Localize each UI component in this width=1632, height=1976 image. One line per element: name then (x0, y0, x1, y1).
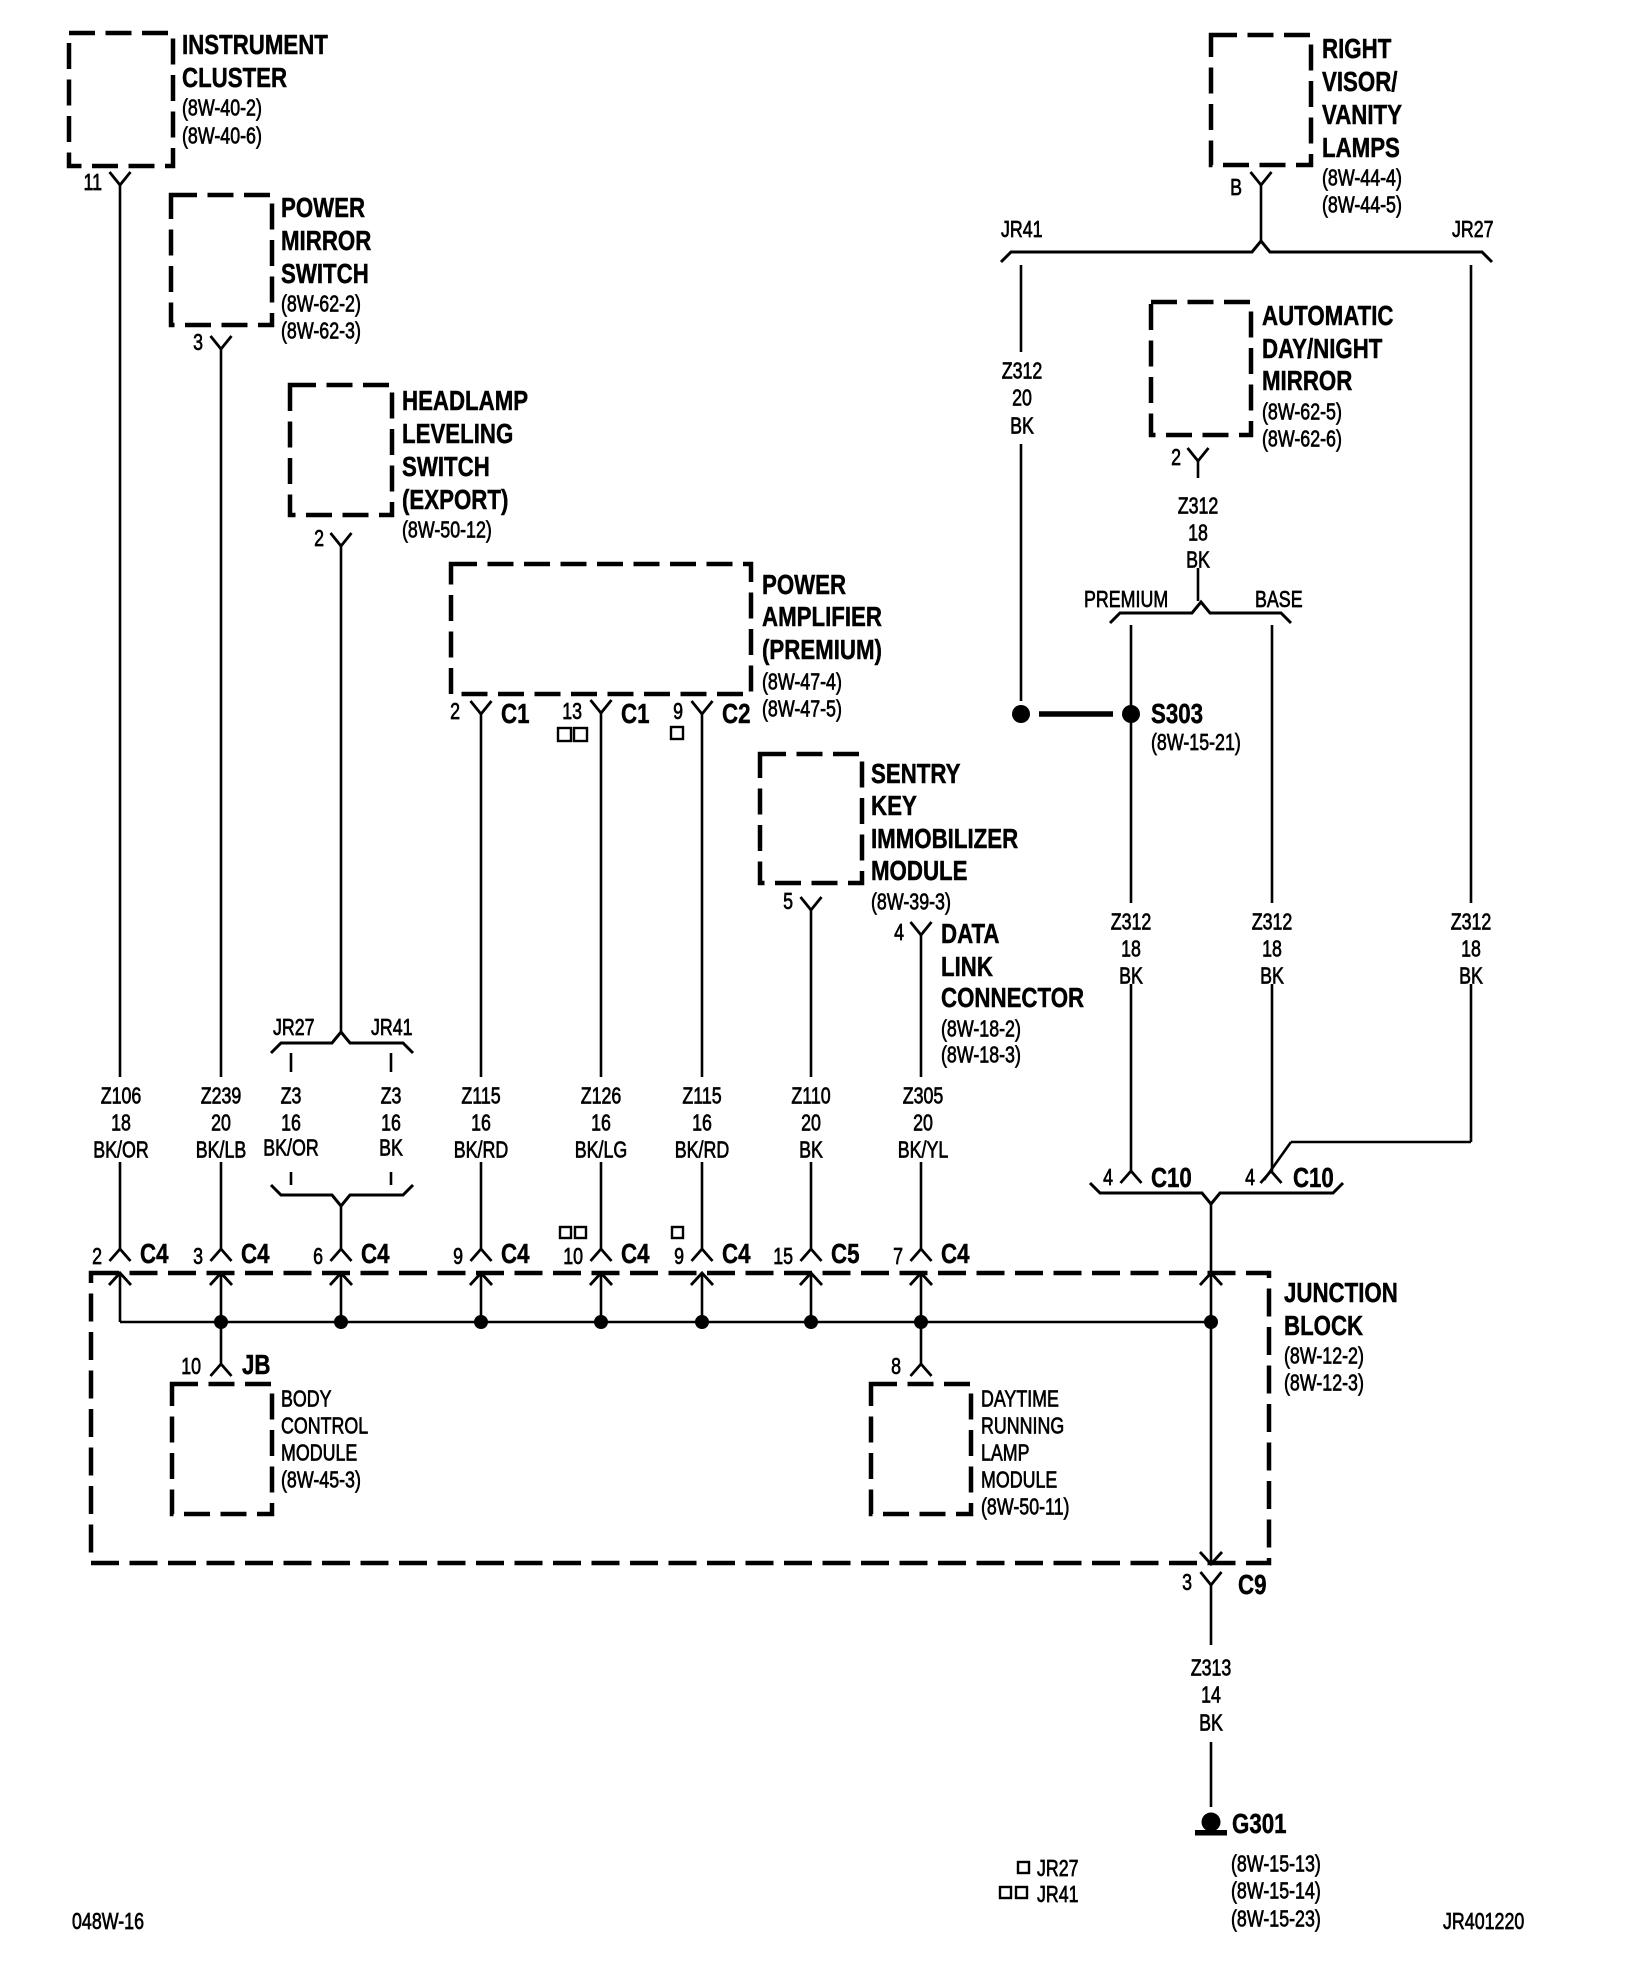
svg-text:MODULE: MODULE (981, 1467, 1057, 1493)
bus junction node at x=221 (214, 1315, 228, 1329)
connector C9 pin 3 (1182, 1569, 1266, 1600)
svg-text:2: 2 (92, 1243, 102, 1269)
svg-text:BK: BK (799, 1137, 823, 1163)
svg-text:BK: BK (1260, 963, 1284, 989)
svg-text:AUTOMATIC: AUTOMATIC (1262, 300, 1394, 331)
svg-text:INSTRUMENT: INSTRUMENT (182, 29, 328, 60)
svg-text:3: 3 (1182, 1569, 1192, 1595)
JR41 marker squares above pin 10 (560, 1227, 586, 1238)
svg-text:Z115: Z115 (461, 1083, 500, 1109)
body control module box (172, 1384, 368, 1514)
svg-text:(8W-50-11): (8W-50-11) (981, 1494, 1070, 1520)
wire label Z126 16 BK/LG (575, 1083, 628, 1163)
wire Z110 from sentry key module to junction block C5 pin 15 (810, 910, 813, 1249)
svg-text:(8W-44-4): (8W-44-4) (1322, 165, 1402, 191)
wire label Z3 16 BK (379, 1083, 403, 1161)
wire Z3 JR41 branch (390, 1053, 393, 1185)
svg-text:BK: BK (1199, 1710, 1223, 1736)
svg-text:Z312: Z312 (1002, 358, 1043, 384)
bus junction node at x=601 (594, 1315, 608, 1329)
svg-text:(8W-62-5): (8W-62-5) (1262, 399, 1342, 425)
JR41 marker squares below pin 13 (558, 728, 587, 741)
svg-text:MODULE: MODULE (281, 1440, 357, 1466)
svg-text:4: 4 (1245, 1164, 1255, 1190)
JR41/JR27 splitter bracket (1001, 216, 1494, 262)
automatic day/night mirror box (1151, 300, 1394, 451)
junction block top connector for C10 wire (1200, 1273, 1222, 1322)
svg-text:LINK: LINK (941, 951, 993, 982)
svg-text:C5: C5 (831, 1238, 860, 1269)
wire Z312 from mirror to premium/base bracket (1197, 461, 1200, 601)
svg-text:S303: S303 (1151, 698, 1203, 729)
svg-text:VANITY: VANITY (1322, 99, 1402, 130)
svg-text:2: 2 (1171, 444, 1181, 470)
svg-text:BK/LB: BK/LB (196, 1137, 247, 1163)
svg-text:(8W-40-2): (8W-40-2) (182, 95, 262, 121)
wire Z312 premium branch (1130, 625, 1133, 1171)
svg-text:18: 18 (1262, 936, 1282, 962)
svg-text:JR401220: JR401220 (1443, 1908, 1524, 1934)
svg-text:JR41: JR41 (371, 1014, 413, 1040)
svg-text:(8W-12-2): (8W-12-2) (1284, 1343, 1364, 1369)
wire Z106 from instrument cluster pin 11 to junction block C4 pin 2 (119, 185, 122, 1249)
svg-text:IMMOBILIZER: IMMOBILIZER (871, 823, 1018, 854)
wire Z3 from headlamp leveling switch to splice bracket (340, 546, 343, 1032)
svg-text:CONNECTOR: CONNECTOR (941, 982, 1084, 1013)
svg-text:20: 20 (211, 1110, 231, 1136)
svg-text:C4: C4 (361, 1238, 390, 1269)
svg-text:C10: C10 (1293, 1162, 1334, 1193)
svg-text:JR27: JR27 (1037, 1855, 1079, 1881)
svg-text:C4: C4 (621, 1238, 650, 1269)
svg-text:SENTRY: SENTRY (871, 758, 961, 789)
svg-text:BLOCK: BLOCK (1284, 1310, 1363, 1341)
JR27 marker square above pin 9 (672, 1227, 683, 1238)
pin 3 connector at power mirror switch (193, 329, 231, 355)
svg-text:20: 20 (801, 1110, 821, 1136)
svg-text:AMPLIFIER: AMPLIFIER (762, 601, 882, 632)
svg-text:Z313: Z313 (1191, 1655, 1232, 1681)
svg-text:MODULE: MODULE (871, 855, 968, 886)
svg-text:(8W-18-3): (8W-18-3) (941, 1042, 1021, 1068)
wire from C10 bracket into junction block (1210, 1204, 1213, 1272)
svg-text:3: 3 (193, 1243, 203, 1269)
svg-text:JR27: JR27 (1452, 216, 1494, 242)
svg-text:6: 6 (313, 1243, 323, 1269)
svg-text:16: 16 (381, 1110, 401, 1136)
junction block connector C4 pin 2 (92, 1238, 169, 1322)
svg-text:CLUSTER: CLUSTER (182, 62, 287, 93)
svg-text:BK/OR: BK/OR (263, 1135, 319, 1161)
svg-text:LAMPS: LAMPS (1322, 132, 1400, 163)
svg-text:20: 20 (1012, 385, 1032, 411)
bus junction node at x=702 (695, 1315, 709, 1329)
connector C10 pin 4 (premium) (1103, 1162, 1192, 1193)
svg-text:Z3: Z3 (281, 1083, 302, 1109)
svg-text:C10: C10 (1151, 1162, 1192, 1193)
svg-text:9: 9 (453, 1243, 463, 1269)
pin 2 connector C1 at power amplifier (450, 698, 529, 729)
svg-text:4: 4 (1103, 1164, 1113, 1190)
pin 9 connector C2 at power amplifier (673, 698, 750, 729)
svg-text:POWER: POWER (762, 569, 846, 600)
svg-text:DAY/NIGHT: DAY/NIGHT (1262, 333, 1382, 364)
wire label Z312 18 BK (premium) (1111, 909, 1152, 989)
PREMIUM/BASE splitter bracket (1084, 586, 1303, 623)
wire label Z312 18 BK (base) (1252, 909, 1293, 989)
junction block connector pin 8 to daytime running lamp module (891, 1322, 931, 1379)
svg-text:(8W-12-3): (8W-12-3) (1284, 1370, 1364, 1396)
svg-text:(8W-47-5): (8W-47-5) (762, 696, 842, 722)
connector symbol: instrument cluster module box (69, 29, 328, 166)
wire Z115 from power amplifier C1 pin 2 (480, 714, 483, 1249)
pin 4 connector at data link connector (894, 918, 1084, 1067)
svg-text:CONTROL: CONTROL (281, 1413, 368, 1439)
svg-text:10: 10 (563, 1243, 583, 1269)
svg-text:B: B (1230, 174, 1242, 200)
svg-text:18: 18 (1188, 520, 1208, 546)
headlamp leveling switch box (290, 385, 528, 543)
svg-text:C2: C2 (722, 698, 751, 729)
bus junction node at x=1211 (1204, 1315, 1218, 1329)
svg-text:Z106: Z106 (101, 1083, 142, 1109)
svg-text:5: 5 (783, 888, 793, 914)
svg-text:(8W-62-3): (8W-62-3) (281, 318, 361, 344)
svg-text:Z126: Z126 (581, 1083, 622, 1109)
svg-text:DATA: DATA (941, 918, 1000, 949)
svg-text:13: 13 (562, 698, 582, 724)
wire label Z313 14 BK (1191, 1655, 1232, 1736)
wire label Z305 20 BK/YL (898, 1083, 949, 1163)
svg-text:9: 9 (674, 1243, 684, 1269)
wire label Z312 20 BK (1002, 358, 1043, 439)
sheet id JR401220 (1443, 1908, 1524, 1934)
svg-text:BK: BK (1119, 963, 1143, 989)
wire label Z115 16 BK/RD (right) (675, 1083, 730, 1163)
svg-text:16: 16 (591, 1110, 611, 1136)
svg-text:11: 11 (84, 169, 103, 195)
wire label Z3 16 BK/OR (263, 1083, 319, 1161)
junction block connector C5 pin 15 (773, 1238, 859, 1322)
svg-text:(8W-50-12): (8W-50-12) (402, 517, 492, 543)
svg-text:15: 15 (773, 1243, 793, 1269)
svg-text:MIRROR: MIRROR (1262, 365, 1352, 396)
right visor vanity lamps box (1211, 33, 1402, 217)
svg-text:PREMIUM: PREMIUM (1084, 586, 1168, 612)
svg-text:Z312: Z312 (1451, 909, 1492, 935)
junction block connector C4 pin 9 (453, 1238, 530, 1322)
svg-text:048W-16: 048W-16 (72, 1908, 144, 1934)
pin 13 connector C1 at power amplifier (562, 698, 649, 729)
junction block box (91, 1273, 1398, 1563)
bus junction node at x=811 (804, 1315, 818, 1329)
svg-text:18: 18 (1461, 936, 1481, 962)
svg-text:(8W-40-6): (8W-40-6) (182, 123, 262, 149)
C10 merge bracket (1090, 1183, 1343, 1204)
daytime running lamp module box (871, 1384, 1070, 1520)
svg-text:Z3: Z3 (381, 1083, 402, 1109)
svg-text:JB: JB (242, 1349, 271, 1380)
svg-text:(8W-18-2): (8W-18-2) (941, 1016, 1021, 1042)
wire Z305 from data link connector to junction block C4 pin 7 (920, 935, 923, 1249)
svg-text:VISOR/: VISOR/ (1322, 66, 1398, 97)
wire label Z106 18 BK/OR (93, 1083, 149, 1163)
wire Z126 from power amplifier C1 pin 13 (600, 713, 603, 1249)
wire label Z110 20 BK (791, 1083, 830, 1163)
svg-text:C4: C4 (140, 1238, 169, 1269)
svg-text:Z305: Z305 (903, 1083, 944, 1109)
svg-text:LAMP: LAMP (981, 1440, 1030, 1466)
svg-text:HEADLAMP: HEADLAMP (402, 385, 528, 416)
svg-text:7: 7 (893, 1243, 903, 1269)
legend JR27 marker (1018, 1855, 1079, 1881)
svg-text:C4: C4 (722, 1238, 751, 1269)
svg-text:16: 16 (471, 1110, 491, 1136)
svg-text:MIRROR: MIRROR (281, 225, 371, 256)
svg-text:JR27: JR27 (273, 1014, 315, 1040)
svg-text:BK/YL: BK/YL (898, 1137, 949, 1163)
svg-text:(8W-44-5): (8W-44-5) (1322, 192, 1402, 218)
svg-text:BK/RD: BK/RD (454, 1137, 509, 1163)
legend JR41 marker (1000, 1881, 1079, 1907)
svg-text:(8W-62-2): (8W-62-2) (281, 291, 361, 317)
sentry key immobilizer module box (760, 754, 1018, 915)
svg-text:(8W-62-6): (8W-62-6) (1262, 426, 1342, 452)
svg-text:BK: BK (1010, 413, 1034, 439)
wire label Z312 18 BK (JR27) (1451, 909, 1492, 989)
svg-text:POWER: POWER (281, 192, 365, 223)
svg-text:(8W-39-3): (8W-39-3) (871, 889, 951, 915)
wire from visor lamps to JR41/JR27 splitter (1260, 185, 1263, 242)
svg-text:Z312: Z312 (1111, 909, 1152, 935)
junction block connector C4 pin 7 (893, 1238, 970, 1322)
svg-text:Z115: Z115 (682, 1083, 721, 1109)
svg-text:Z239: Z239 (201, 1083, 242, 1109)
svg-text:SWITCH: SWITCH (281, 258, 369, 289)
svg-text:4: 4 (894, 919, 904, 945)
wire label Z312 18 BK (mirror) (1178, 493, 1219, 573)
ground G301 symbol (1195, 1808, 1321, 1932)
svg-text:C4: C4 (501, 1238, 530, 1269)
JR27/JR41 merge bracket (bottom) (271, 1185, 413, 1206)
bus junction node at x=481 (474, 1315, 488, 1329)
wire Z239 from power mirror switch to junction block C4 pin 3 (220, 349, 223, 1249)
svg-text:(8W-15-14): (8W-15-14) (1231, 1878, 1321, 1904)
svg-text:BODY: BODY (281, 1386, 332, 1412)
JR27 marker square below pin 9 (671, 727, 683, 739)
junction block connector C4 pin 6 (313, 1238, 390, 1322)
svg-text:JR41: JR41 (1001, 216, 1043, 242)
svg-text:RUNNING: RUNNING (981, 1413, 1064, 1439)
svg-text:SWITCH: SWITCH (402, 451, 490, 482)
svg-text:2: 2 (450, 698, 460, 724)
junction block connector C4 pin 10 (563, 1238, 650, 1322)
svg-text:C1: C1 (501, 698, 530, 729)
svg-text:(EXPORT): (EXPORT) (402, 484, 508, 515)
svg-text:G301: G301 (1232, 1808, 1287, 1839)
svg-text:DAYTIME: DAYTIME (981, 1386, 1059, 1412)
svg-text:(8W-15-13): (8W-15-13) (1231, 1851, 1321, 1877)
pin B connector at right visor lamps (1230, 172, 1271, 200)
svg-text:(8W-15-23): (8W-15-23) (1231, 1906, 1321, 1932)
svg-text:BK: BK (1186, 547, 1210, 573)
wire label Z115 16 BK/RD (left) (454, 1083, 509, 1163)
svg-text:14: 14 (1201, 1682, 1221, 1708)
svg-text:(8W-45-3): (8W-45-3) (281, 1467, 361, 1493)
svg-text:20: 20 (913, 1110, 933, 1136)
splice S303 (1012, 698, 1241, 755)
svg-text:C4: C4 (941, 1238, 970, 1269)
wire Z312 JR27 branch (1264, 265, 1471, 1180)
svg-text:RIGHT: RIGHT (1322, 33, 1391, 64)
svg-text:BK: BK (1459, 963, 1483, 989)
svg-text:2: 2 (314, 525, 324, 551)
svg-text:(8W-47-4): (8W-47-4) (762, 669, 842, 695)
svg-text:KEY: KEY (871, 790, 917, 821)
junction block connector C4 pin 3 (193, 1238, 270, 1322)
svg-text:18: 18 (1121, 936, 1141, 962)
svg-text:BK/RD: BK/RD (675, 1137, 730, 1163)
pin 2 connector at automatic day/night mirror (1171, 444, 1208, 470)
svg-text:(8W-15-21): (8W-15-21) (1151, 729, 1241, 755)
power mirror switch box (171, 192, 371, 343)
svg-text:JR41: JR41 (1037, 1881, 1079, 1907)
svg-text:Z312: Z312 (1252, 909, 1293, 935)
pin 5 connector at sentry key immobilizer module (783, 888, 821, 914)
pin 2 connector at headlamp leveling switch (314, 525, 351, 551)
svg-text:Z110: Z110 (791, 1083, 830, 1109)
sheet number 048W-16 (72, 1908, 144, 1934)
wire Z3 JR27 branch (290, 1053, 293, 1185)
svg-text:JUNCTION: JUNCTION (1284, 1277, 1398, 1308)
junction block JB connector pin 10 to body control module (181, 1322, 270, 1380)
svg-text:LEVELING: LEVELING (402, 418, 513, 449)
svg-text:10: 10 (181, 1353, 201, 1379)
bus junction node at x=341 (334, 1315, 348, 1329)
pin 11 connector at instrument cluster (84, 169, 131, 195)
svg-text:3: 3 (193, 329, 203, 355)
junction block connector C4 pin 9 (674, 1238, 751, 1322)
svg-text:BK/OR: BK/OR (93, 1137, 149, 1163)
svg-text:9: 9 (673, 698, 683, 724)
power amplifier module box (451, 564, 882, 722)
bus junction node at x=921 (914, 1315, 928, 1329)
svg-text:8: 8 (891, 1353, 901, 1379)
wire Z115 from power amplifier C2 pin 9 (701, 714, 704, 1249)
svg-text:16: 16 (281, 1110, 301, 1136)
svg-text:C9: C9 (1238, 1569, 1267, 1600)
wire Z313 from C9 to ground G301 (1210, 1585, 1213, 1807)
svg-text:16: 16 (692, 1110, 712, 1136)
svg-text:BK/LG: BK/LG (575, 1137, 628, 1163)
svg-text:C4: C4 (241, 1238, 270, 1269)
svg-text:BK: BK (379, 1135, 403, 1161)
svg-text:C1: C1 (621, 698, 650, 729)
wire Z312 JR41 branch to splice S303 (1020, 265, 1023, 701)
wire label Z239 20 BK/LB (196, 1083, 247, 1163)
svg-text:18: 18 (111, 1110, 131, 1136)
svg-text:BASE: BASE (1255, 586, 1303, 612)
junction block internal bus wire (120, 1321, 1211, 1324)
JR27/JR41 splitter bracket (top) (271, 1014, 413, 1053)
connector C10 pin 4 (base) (1245, 1162, 1334, 1193)
wire from bus to junction block bottom connector (1210, 1322, 1213, 1563)
wire from merge bracket to junction block C4 pin 6 (340, 1206, 343, 1249)
junction block bottom edge crossing arrow (1200, 1552, 1222, 1564)
svg-text:Z312: Z312 (1178, 493, 1219, 519)
svg-text:(PREMIUM): (PREMIUM) (762, 634, 882, 665)
wire Z312 base branch (1271, 625, 1274, 1171)
